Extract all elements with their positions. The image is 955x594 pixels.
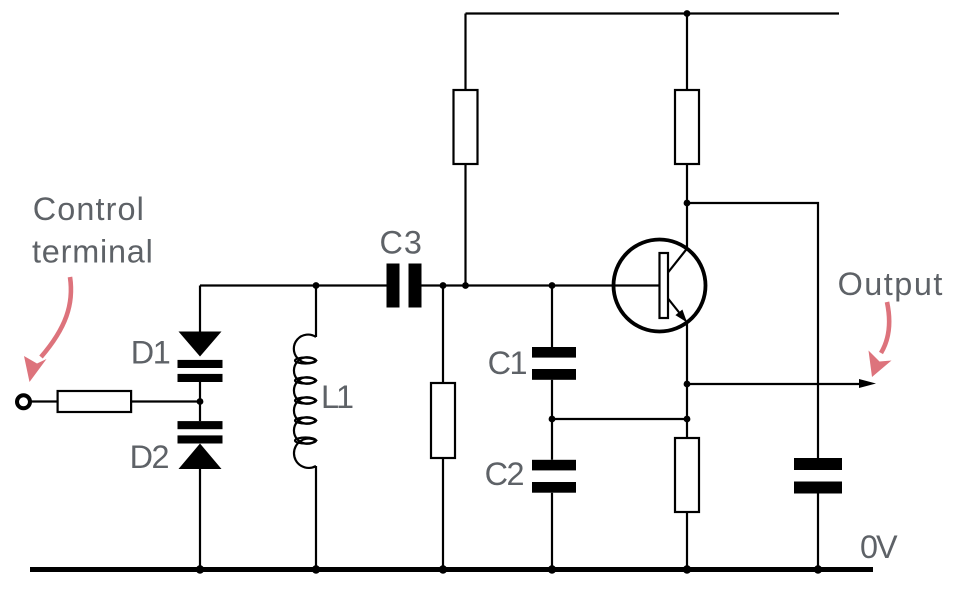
- svg-text:C2: C2: [485, 456, 524, 492]
- node L1 top: [313, 282, 320, 289]
- wire terminal to resistor: [31, 400, 58, 402]
- svg-text:D1: D1: [131, 335, 170, 371]
- svg-text:L1: L1: [321, 379, 353, 415]
- output arrowhead: [859, 379, 876, 388]
- wire R3 bottom lead: [442, 458, 444, 570]
- wire resistor to varactor node: [131, 400, 200, 402]
- node C1-C2 junction: [549, 416, 556, 423]
- node rail L1: [312, 565, 320, 573]
- wire R3 top lead: [442, 286, 444, 384]
- node rail C2: [548, 565, 556, 573]
- inductor L1 loop eyes: [295, 358, 316, 444]
- svg-text:C1: C1: [488, 345, 527, 381]
- node R1 junction: [462, 282, 469, 289]
- wire L1 bottom lead: [315, 466, 317, 570]
- node rail R3: [439, 565, 447, 573]
- annotation arrow control (pink): [24, 277, 71, 382]
- svg-text:Output: Output: [838, 266, 944, 302]
- wire D1 top lead: [199, 286, 201, 332]
- node rail C4: [814, 565, 822, 573]
- transistor Q1 emitter stroke: [668, 299, 686, 321]
- svg-text:C3: C3: [380, 225, 423, 261]
- svg-text:0V: 0V: [860, 529, 898, 565]
- wire R1 top lead: [464, 14, 466, 91]
- wire L1 top lead: [315, 286, 317, 338]
- transistor Q1 circle: [614, 240, 706, 332]
- wire top supply rail: [466, 12, 840, 14]
- wire D1-D2 mid: [199, 382, 201, 421]
- wire emitter down: [686, 322, 688, 438]
- varactor D2: [178, 421, 223, 469]
- wire R1 bottom lead: [464, 164, 466, 286]
- annotation arrow output (pink): [869, 302, 892, 377]
- wire main horizontal right segment: [422, 284, 660, 286]
- wire C2 bottom lead: [551, 493, 553, 570]
- capacitor C2: [532, 460, 576, 493]
- svg-text:terminal: terminal: [32, 234, 154, 270]
- varactor D1: [178, 332, 223, 383]
- wire output line: [687, 383, 860, 385]
- transistor Q1 collector stroke: [668, 249, 687, 273]
- node emitter-side junction: [684, 416, 691, 423]
- wire bottom 0V rail: [30, 567, 873, 572]
- wire C1 top lead: [551, 286, 553, 348]
- wire collector tap to right column: [687, 203, 818, 458]
- wire D2 bottom lead: [199, 469, 201, 570]
- svg-text:D2: D2: [130, 439, 169, 475]
- node output tap: [684, 381, 691, 388]
- wire R4 bottom lead: [686, 512, 688, 570]
- svg-text:Control: Control: [33, 191, 145, 227]
- wire R2 bottom lead: [686, 164, 688, 249]
- node rail R4: [683, 565, 691, 573]
- transistor Q1 emitter arrowhead: [675, 310, 687, 323]
- wire R2 top lead: [686, 14, 688, 91]
- wire C1-C2 junction to emitter: [552, 418, 687, 420]
- node C3 output junction: [440, 282, 447, 289]
- capacitor C3: [387, 264, 422, 308]
- resistor R5 horizontal: [58, 391, 132, 412]
- wire C1 to C2: [551, 380, 553, 460]
- inductor L1 coil: [294, 335, 316, 468]
- wire C4 bottom lead: [817, 494, 819, 571]
- capacitor C4 right: [794, 458, 842, 494]
- node top rail junction: [684, 10, 691, 17]
- transistor Q1 base bar: [660, 253, 669, 318]
- resistor R1: [454, 90, 478, 164]
- resistor R3: [431, 383, 455, 458]
- node varactor midpoint: [197, 398, 204, 405]
- resistor R4: [675, 438, 699, 512]
- resistor R2: [675, 90, 699, 164]
- node C1 top: [549, 282, 556, 289]
- node rail D2: [196, 565, 204, 573]
- capacitor C1: [532, 347, 576, 380]
- node collector tap: [684, 200, 691, 207]
- wire main horizontal left segment: [200, 284, 387, 286]
- terminal circle: [17, 395, 30, 408]
